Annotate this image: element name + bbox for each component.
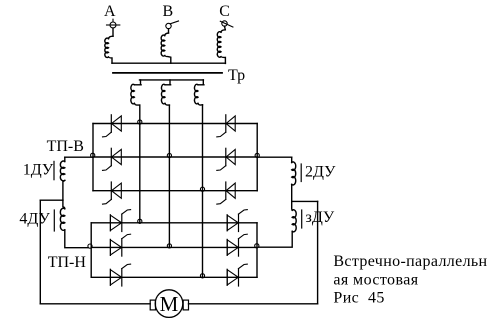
transformer core separator: [113, 72, 222, 74]
secondary winding phase b: [162, 80, 171, 105]
svg-text:зДУ: зДУ: [306, 209, 335, 226]
secondary winding phase a: [131, 80, 141, 105]
label 4DU: [19, 211, 50, 228]
svg-text:ая мостовая: ая мостовая: [333, 271, 418, 288]
node TP-V left bus row 2: [91, 153, 95, 157]
node TP-V right bus row 2: [255, 153, 259, 157]
wire primary bus: [112, 62, 225, 64]
svg-text:М: М: [160, 292, 179, 316]
reactor 2DU: [257, 157, 301, 201]
node phase a - TP-N row 1: [138, 219, 142, 223]
thyristor VS9 lower-left row 3: [110, 264, 130, 286]
phase label C: [219, 3, 230, 20]
phase label A: [104, 3, 116, 20]
thyristor VS7 lower-left row 1: [110, 210, 130, 232]
wire phase c vertical: [202, 105, 204, 277]
wire secondary bus: [140, 79, 204, 81]
svg-text:ТП-Н: ТП-Н: [48, 254, 87, 271]
wire TP-V row 1: [93, 123, 257, 125]
wire TP-V row 3: [93, 190, 257, 192]
svg-text:1ДУ: 1ДУ: [23, 162, 54, 179]
wire motor left: [40, 303, 150, 305]
wire right tap: [292, 201, 318, 303]
transformer label Tp: [228, 67, 245, 84]
svg-text:С: С: [219, 3, 230, 20]
label 2DU: [305, 164, 336, 181]
svg-text:ТП-В: ТП-В: [47, 138, 84, 155]
primary winding phase A: [105, 28, 113, 63]
reactor 3DU: [259, 201, 302, 247]
node TP-N right bus row 2: [255, 244, 259, 248]
thyristor VS12 lower-right row 3: [227, 264, 247, 286]
svg-text:Встречно-параллельн: Встречно-параллельн: [333, 253, 487, 270]
node phase b - TP-V row 2: [167, 153, 171, 157]
svg-text:А: А: [104, 3, 116, 20]
caption line 2: [333, 271, 418, 288]
switch phase B: [166, 21, 179, 29]
label TP-N: [48, 254, 87, 271]
reactor 1DU: [54, 157, 93, 200]
wire TP-N left bus: [90, 223, 92, 277]
wire phase b vertical: [168, 105, 170, 247]
caption line 3: [333, 290, 384, 307]
node phase c - TP-N row 3: [200, 274, 204, 278]
primary winding phase C: [217, 26, 225, 63]
wire phase a vertical: [139, 105, 141, 223]
label 1DU: [23, 162, 54, 179]
wire TP-V left bus: [92, 124, 94, 191]
node TP-N left bus row 2: [88, 244, 92, 248]
thyristor VS4 upper-right row 1: [217, 115, 235, 137]
wire TP-N row 1: [91, 222, 257, 224]
thyristor VS8 lower-left row 2: [110, 234, 130, 256]
wire motor right: [189, 303, 318, 305]
svg-text:2ДУ: 2ДУ: [305, 164, 336, 181]
wire TP-N row 3: [91, 276, 257, 278]
wire TP-N right bus: [256, 223, 258, 277]
secondary winding phase c: [195, 80, 204, 105]
node phase b - TP-N row 2: [167, 244, 171, 248]
svg-text:Рис 45: Рис 45: [333, 290, 384, 307]
node phase c - TP-V row 3: [200, 187, 204, 191]
svg-text:Тр: Тр: [228, 67, 245, 84]
caption line 1: [333, 253, 487, 270]
thyristor VS1 upper-left row 1: [103, 115, 122, 137]
switch phase C: [220, 21, 233, 27]
thyristor VS5 upper-right row 2: [217, 148, 235, 170]
thyristor VS3 upper-left row 3: [103, 182, 122, 204]
thyristor VS10 lower-right row 1: [227, 210, 247, 232]
label TP-V: [47, 138, 84, 155]
motor brush right: [183, 300, 188, 310]
primary winding phase B: [161, 29, 171, 64]
wire TP-V row 2: [93, 156, 257, 158]
switch phase A: [107, 19, 120, 28]
wire TP-V right bus: [256, 124, 258, 191]
phase label B: [163, 3, 174, 20]
thyristor VS2 upper-left row 2: [103, 148, 122, 170]
svg-text:4ДУ: 4ДУ: [19, 211, 50, 228]
label 3DU: [306, 209, 335, 226]
svg-text:В: В: [163, 3, 174, 20]
node phase a - TP-V row 1: [138, 120, 142, 124]
motor M: [155, 290, 183, 318]
thyristor VS6 upper-right row 3: [217, 182, 235, 204]
wire left tap: [40, 200, 63, 304]
reactor 4DU: [54, 200, 88, 248]
wire TP-N row 2: [91, 246, 257, 248]
motor brush left: [150, 300, 155, 310]
thyristor VS11 lower-right row 2: [227, 234, 247, 256]
